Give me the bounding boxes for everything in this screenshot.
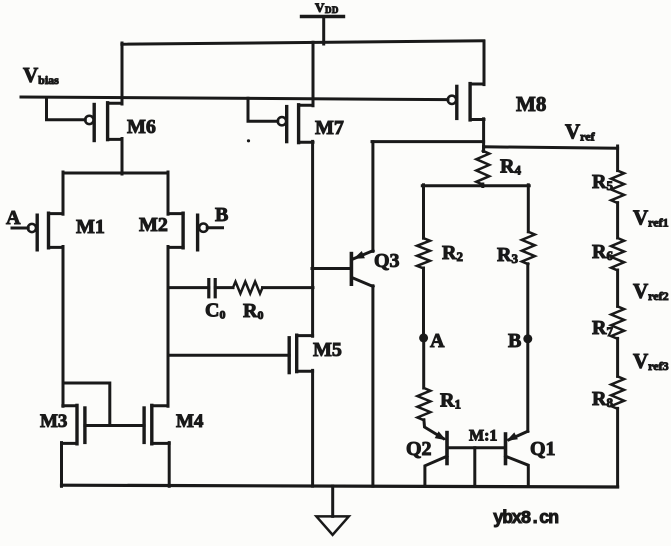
- svg-text:Q1: Q1: [530, 438, 556, 460]
- node A: [419, 330, 445, 352]
- wire mirror gate link: [85, 424, 144, 427]
- VDD supply symbol: [302, 0, 344, 44]
- wire node A to R1: [422, 338, 425, 388]
- svg-text:B: B: [508, 330, 521, 352]
- wire R3 to node B: [526, 264, 529, 339]
- wire M6 source lead: [121, 43, 124, 104]
- wire M1 source lead: [62, 172, 65, 214]
- wire Vref line right: [484, 147, 618, 148]
- Vref label: [565, 120, 596, 144]
- svg-text:R2: R2: [442, 242, 463, 264]
- resistor R0: [215, 282, 313, 322]
- transistor M4: [144, 405, 204, 443]
- wire M1 drain column: [62, 247, 65, 407]
- ground: [316, 486, 348, 535]
- wire Q3 emitter lead: [371, 142, 374, 252]
- transistor M7: [248, 98, 344, 142]
- svg-text:A: A: [430, 330, 445, 352]
- svg-text:Vbias: Vbias: [23, 63, 59, 87]
- svg-text:M:1: M:1: [469, 428, 497, 445]
- wire ground rail: [62, 485, 618, 487]
- resistor R1: [417, 388, 461, 420]
- svg-text:Vref2: Vref2: [633, 279, 669, 303]
- svg-text:R0: R0: [243, 300, 263, 322]
- svg-text:R1: R1: [440, 390, 461, 412]
- resistor R8: [592, 376, 624, 410]
- wire M8 drain lead: [482, 119, 485, 148]
- scan dot artifact: [247, 139, 250, 142]
- Vref3 label: [633, 349, 669, 373]
- wire Vref to R5: [616, 146, 619, 171]
- resistor R3: [497, 232, 535, 266]
- transistor M1: [12, 213, 105, 250]
- Vbias label: [23, 63, 59, 87]
- svg-text:M5: M5: [313, 339, 342, 361]
- wire M2 drain column: [167, 247, 170, 407]
- svg-text:ybx8.cn: ybx8.cn: [493, 509, 558, 529]
- wire Q3 collector lead: [371, 286, 374, 487]
- wire M2 source lead: [167, 172, 170, 214]
- wire R6 to R7: [616, 270, 619, 306]
- svg-text:R7: R7: [592, 317, 613, 339]
- svg-text:M3: M3: [40, 411, 67, 432]
- svg-text:Q3: Q3: [374, 250, 400, 272]
- svg-text:M2: M2: [139, 214, 168, 236]
- wire R5 to R6: [616, 203, 619, 238]
- wire base link: [447, 446, 506, 449]
- wire R2 to node A: [422, 268, 425, 338]
- svg-text:VDD: VDD: [315, 0, 339, 15]
- wire Vref line left: [372, 140, 484, 143]
- svg-text:R6: R6: [592, 241, 613, 263]
- capacitor C0: [168, 280, 225, 322]
- transistor M6: [47, 98, 156, 141]
- transistor M3: [40, 405, 85, 443]
- svg-text:M7: M7: [315, 117, 344, 139]
- wire node B to Q1: [526, 339, 529, 432]
- svg-text:A: A: [6, 207, 21, 229]
- resistor R4: [476, 147, 521, 187]
- svg-text:R3: R3: [497, 244, 518, 266]
- Vref2 label: [633, 279, 669, 303]
- svg-text:R5: R5: [592, 171, 613, 193]
- resistor R6: [592, 238, 624, 270]
- wire Vbias rail: [21, 97, 448, 100]
- svg-text:Vref3: Vref3: [633, 349, 669, 373]
- svg-text:R4: R4: [500, 156, 521, 178]
- svg-text:M1: M1: [76, 216, 105, 238]
- svg-text:Vref1: Vref1: [633, 206, 669, 230]
- wire M6 drain lead: [121, 139, 124, 175]
- wire R3 branch upper: [527, 185, 530, 232]
- wire M5 source lead: [311, 370, 314, 486]
- transistor Q1: [506, 431, 556, 486]
- svg-text:Vref: Vref: [565, 120, 596, 144]
- svg-text:C0: C0: [205, 300, 225, 322]
- transistor Q3: [351, 250, 399, 287]
- transistor Q2: [406, 420, 447, 487]
- Vref1 label: [633, 206, 669, 230]
- resistor R2: [417, 238, 463, 268]
- node B: [508, 330, 532, 352]
- wire M7 source lead: [312, 42, 315, 106]
- svg-text:B: B: [215, 204, 228, 226]
- wire M4 source lead: [168, 443, 171, 487]
- transistor M2: [139, 213, 223, 250]
- wire M8 source lead: [483, 41, 486, 84]
- svg-text:R8: R8: [592, 388, 613, 410]
- M:1 ratio label: [469, 428, 497, 445]
- input A label: [6, 207, 21, 229]
- svg-text:M4: M4: [176, 411, 204, 432]
- resistor R5: [592, 171, 624, 203]
- wire VDD top rail: [122, 41, 484, 44]
- wire Q3 base wire: [312, 267, 351, 270]
- watermark ybx8.cn: [493, 509, 558, 529]
- resistor R7: [592, 306, 624, 339]
- wire base ground tap: [473, 448, 476, 487]
- svg-text:M8: M8: [516, 92, 546, 116]
- input B label: [215, 204, 228, 226]
- wire diff-pair source bar: [63, 172, 168, 175]
- wire R2 branch upper: [422, 185, 425, 238]
- wire core top bar: [422, 184, 529, 187]
- wire R7 to R8: [616, 338, 619, 376]
- transistor M8: [448, 84, 547, 120]
- wire M3 source lead: [60, 443, 63, 487]
- wire mirror diode tap: [63, 383, 110, 426]
- svg-text:M6: M6: [127, 116, 156, 138]
- wire R8 to ground rail: [616, 408, 619, 486]
- wire M7 drain column: [311, 141, 314, 336]
- svg-text:Q2: Q2: [406, 438, 432, 460]
- transistor M5: [168, 335, 342, 372]
